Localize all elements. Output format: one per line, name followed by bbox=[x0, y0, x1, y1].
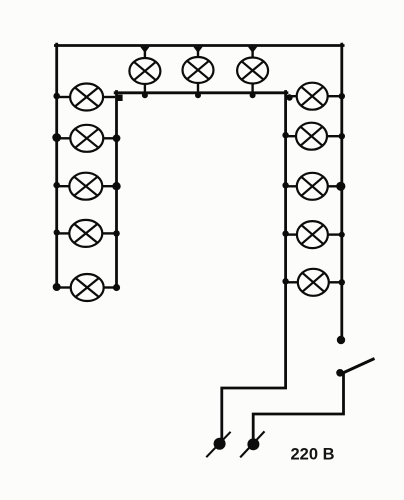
lamp L2 top row bbox=[183, 47, 214, 99]
wire second bus (inner horizontal) bbox=[115, 91, 287, 94]
svg-text:220 В: 220 В bbox=[291, 446, 335, 464]
lamp L12 right column bbox=[282, 221, 344, 248]
lamp L10 right column bbox=[282, 123, 345, 150]
lamp L6 left column bbox=[53, 173, 120, 200]
terminal X2 plug pin bbox=[240, 431, 264, 457]
terminal X1 plug pin bbox=[206, 432, 230, 457]
lamp L7 left column bbox=[54, 220, 120, 247]
wire right inner vertical down to terminal bbox=[222, 92, 286, 444]
switch S1 fixed contact bbox=[337, 336, 345, 344]
lamp L13 right column bbox=[282, 269, 345, 296]
lamp L3 top row bbox=[237, 47, 268, 99]
lamp L9 right column bbox=[286, 83, 345, 110]
wire switch to terminal bbox=[253, 374, 343, 444]
label 220 V supply bbox=[291, 446, 335, 464]
wire right outer vertical bbox=[340, 44, 343, 337]
lamp L11 right column bbox=[282, 173, 345, 200]
lamp L1 top row bbox=[129, 47, 160, 99]
lamp L4 left column bbox=[53, 84, 122, 111]
wire top bus bbox=[55, 44, 343, 47]
lamp L5 left column bbox=[52, 125, 120, 152]
wire left inner vertical bbox=[115, 92, 118, 289]
switch S1 blade and pivot bbox=[336, 359, 374, 377]
wire left outer vertical bbox=[55, 44, 58, 288]
lamp L8 left column bbox=[53, 274, 120, 301]
